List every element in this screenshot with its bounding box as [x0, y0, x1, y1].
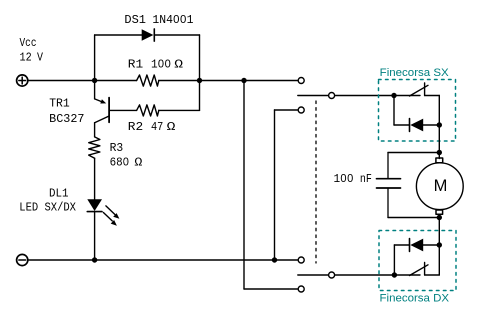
resistor R2: [137, 105, 159, 116]
svg-text:Ω: Ω: [174, 58, 183, 71]
wire R2 right: [159, 109, 200, 111]
diode SX: [410, 119, 424, 132]
switch SPDT top pivot: [329, 93, 335, 99]
wire DX common stub: [394, 274, 420, 276]
diode DX: [410, 239, 424, 252]
wire DX right vertical: [438, 245, 440, 275]
wire R2 up to rail: [199, 81, 201, 111]
svg-text:DS1: DS1: [124, 14, 146, 27]
switch SPDT bottom pivot: [329, 272, 335, 278]
node junction D: [92, 257, 97, 262]
node junction E: [272, 257, 277, 262]
terminal circle bottom B: [298, 286, 304, 292]
wire DS1 top right: [154, 34, 199, 36]
switch DX lever: [410, 265, 429, 276]
svg-text:Finecorsa DX: Finecorsa DX: [380, 293, 450, 305]
wire LED to bottom rail: [94, 212, 96, 260]
svg-text:R2: R2: [128, 121, 143, 134]
wire DX diode left lead: [394, 244, 409, 246]
wire SX common stub: [394, 95, 420, 97]
switch SPDT bottom lever: [298, 274, 328, 276]
node junction motor top: [437, 150, 442, 155]
terminal plus Vcc: [17, 75, 28, 86]
terminal circle top A: [298, 78, 304, 84]
wire bottom switch to DX box: [335, 274, 394, 276]
wire mid branch vertical: [274, 110, 276, 260]
wire DS1 right vertical: [199, 35, 201, 81]
node junction SX out: [437, 122, 442, 127]
svg-text:680: 680: [110, 156, 130, 169]
switch SX lever: [410, 85, 429, 96]
resistor R1: [137, 75, 159, 86]
svg-text:12: 12: [20, 52, 32, 65]
svg-text:DL1: DL1: [49, 188, 69, 201]
svg-text:BC327: BC327: [49, 113, 84, 126]
wire mid branch horizontal: [275, 109, 298, 111]
wire cap bottom rail: [388, 217, 439, 219]
wire SX right vertical: [438, 96, 440, 126]
wire R3 to LED: [94, 158, 96, 199]
motor M: [416, 158, 463, 214]
switch SX contact bar: [424, 83, 426, 96]
svg-text:V: V: [37, 52, 43, 65]
node junction A: [92, 78, 97, 83]
box Finecorsa SX: [379, 80, 456, 142]
resistor R3: [89, 137, 100, 158]
svg-text:R1: R1: [128, 58, 143, 71]
node junction DX in: [392, 272, 397, 277]
wire output up branch vertical: [243, 81, 245, 290]
wire SX diode left lead: [394, 124, 409, 126]
svg-text:LED SX/DX: LED SX/DX: [19, 202, 76, 215]
zero glyph counter patches: [124, 18, 351, 179]
transistor TR1: [95, 81, 110, 137]
terminal circle top B: [298, 107, 304, 113]
node junction SX in: [391, 93, 396, 98]
node junction B: [197, 78, 202, 83]
node junction C: [241, 78, 246, 83]
wire bottom rail: [28, 259, 298, 261]
wire Vcc rail left: [28, 80, 137, 82]
wire SX left vertical: [393, 96, 395, 126]
box Finecorsa DX: [379, 231, 456, 291]
wire motor bottom to DX: [438, 214, 440, 245]
wire base to R2: [110, 109, 137, 111]
wire DS1 left vertical: [94, 35, 96, 81]
svg-text:Finecorsa SX: Finecorsa SX: [380, 67, 449, 79]
terminal minus: [17, 254, 28, 265]
wire DX left vertical: [393, 245, 395, 275]
switch SPDT top lever: [298, 95, 328, 97]
wire top switch to SX box: [335, 95, 394, 97]
svg-text:M: M: [434, 177, 448, 195]
wire cap top rail: [388, 152, 439, 154]
svg-text:1N4001: 1N4001: [152, 14, 193, 27]
capacitor C1: [377, 153, 401, 218]
switch DX contact bar: [424, 263, 426, 276]
node junction motor bottom: [437, 215, 442, 220]
svg-text:47: 47: [151, 121, 163, 134]
wire SX contact to right: [425, 95, 440, 97]
terminal circle bottom A: [298, 257, 304, 263]
wire SX to motor top: [438, 125, 440, 159]
wire DS1 top left: [95, 34, 142, 36]
node junction DX diode: [437, 242, 442, 247]
wire to lower-left terminal: [244, 288, 298, 290]
diode DS1: [142, 29, 155, 41]
svg-text:100: 100: [151, 58, 171, 71]
svg-text:Vcc: Vcc: [20, 37, 37, 50]
svg-text:Ω: Ω: [167, 121, 176, 134]
svg-text:nF: nF: [360, 173, 372, 186]
wire DX contact to right: [425, 274, 440, 276]
svg-text:Ω: Ω: [134, 156, 142, 169]
svg-text:TR1: TR1: [49, 98, 70, 111]
svg-text:R3: R3: [110, 142, 124, 155]
wire Vcc rail right: [159, 80, 298, 82]
LED DL1: [87, 199, 119, 226]
dashed separator line: [315, 101, 317, 263]
wire SX diode right lead: [423, 124, 439, 126]
svg-text:100: 100: [334, 173, 354, 186]
wire DX diode right lead: [423, 244, 439, 246]
